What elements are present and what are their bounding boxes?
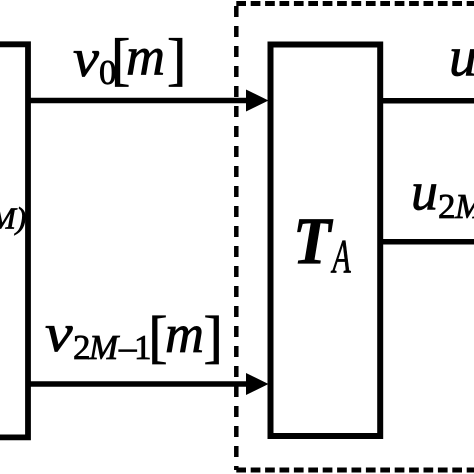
wire v0 bbox=[28, 98, 250, 104]
arrowhead v2M-1 bbox=[246, 373, 269, 395]
transform box TA bbox=[271, 45, 381, 437]
label v2M-1[m] bbox=[45, 303, 223, 369]
wire u2M-1 out bbox=[380, 239, 474, 245]
svg-text:M): M) bbox=[0, 201, 26, 236]
label TA bbox=[293, 203, 351, 283]
svg-text:M: M bbox=[454, 187, 474, 226]
svg-text:v: v bbox=[45, 303, 73, 363]
svg-text:m: m bbox=[126, 27, 165, 87]
svg-text:]: ] bbox=[167, 27, 186, 92]
svg-text:A: A bbox=[330, 229, 351, 283]
svg-text:T: T bbox=[293, 203, 333, 278]
svg-text:]: ] bbox=[204, 304, 223, 369]
left analysis box (partial, cut at left edge) bbox=[0, 44, 28, 437]
svg-text:2: 2 bbox=[438, 187, 456, 226]
wire u0 out bbox=[380, 98, 474, 104]
svg-text:m: m bbox=[165, 304, 204, 364]
svg-text:v: v bbox=[73, 29, 99, 89]
dashed box bottom edge bbox=[236, 468, 474, 473]
label v0[m] bbox=[73, 27, 186, 93]
arrowhead v0 bbox=[246, 90, 269, 112]
svg-text:u: u bbox=[449, 27, 474, 89]
svg-text:u: u bbox=[411, 162, 438, 222]
dashed box left edge bbox=[234, 6, 239, 470]
label u2M-1 (cut at right edge) bbox=[411, 162, 474, 227]
svg-text:2: 2 bbox=[73, 328, 91, 367]
wire v2M-1 bbox=[28, 381, 250, 387]
svg-text:M: M bbox=[88, 328, 120, 367]
dashed box top edge bbox=[236, 1, 474, 6]
